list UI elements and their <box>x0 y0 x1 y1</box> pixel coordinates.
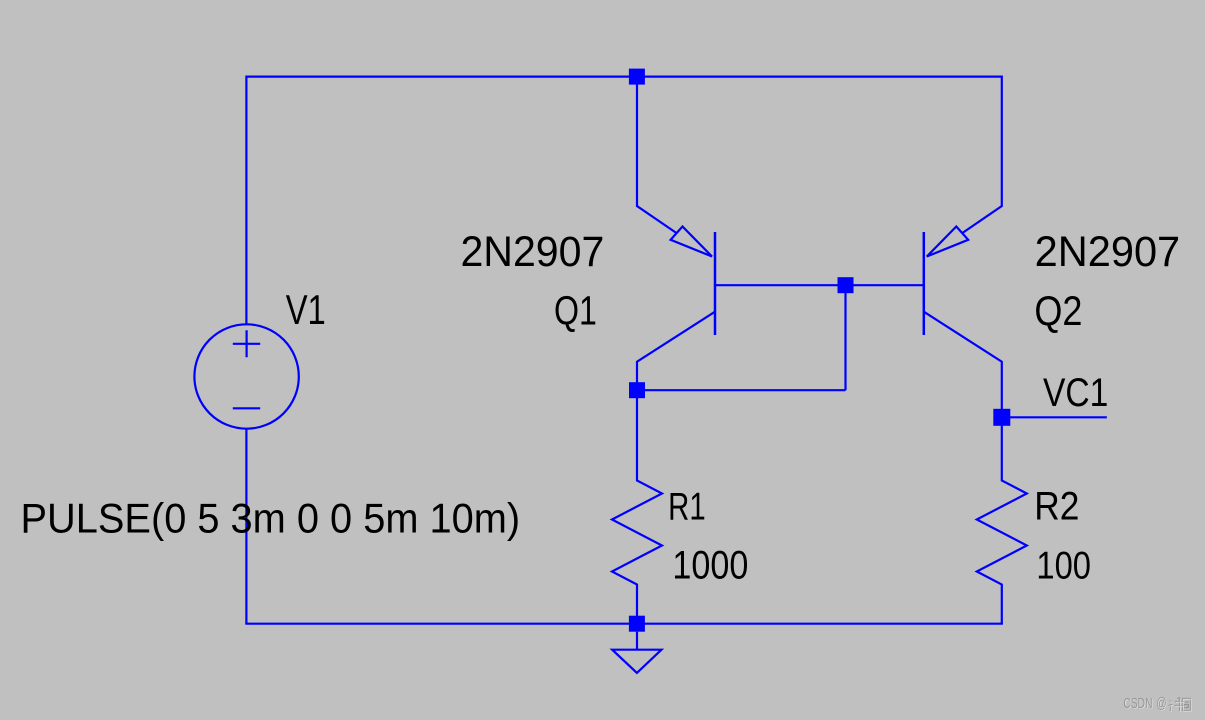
svg-text:@: @ <box>1156 695 1166 711</box>
node junction Q1/Q2 base <box>838 277 854 293</box>
svg-text:2N2907: 2N2907 <box>1035 227 1181 275</box>
transistor Q1 emitter arrow <box>671 227 712 257</box>
voltage source V1 circle <box>194 324 298 428</box>
svg-text:VC1: VC1 <box>1043 369 1108 415</box>
transistor Q1 base wire <box>715 284 846 286</box>
wire left vertical (V1 top lead) <box>245 76 247 325</box>
watermark CSDN <box>1123 695 1191 712</box>
svg-text:2N2907: 2N2907 <box>460 227 604 275</box>
ground symbol <box>612 650 661 673</box>
resistor R2 <box>977 417 1027 623</box>
svg-text:PULSE(0 5 3m 0 0 5m 10m): PULSE(0 5 3m 0 0 5m 10m) <box>21 494 521 541</box>
transistor Q2 base wire <box>846 284 924 286</box>
svg-text:CSDN: CSDN <box>1123 695 1152 711</box>
transistor Q1 base bar <box>714 232 717 335</box>
node junction R1 top <box>629 382 645 398</box>
wire ground lead <box>636 632 638 650</box>
resistor R1 <box>612 390 662 624</box>
svg-text:R1: R1 <box>668 486 706 529</box>
svg-text:Q2: Q2 <box>1034 289 1082 335</box>
transistor Q2 emitter arrow <box>927 227 968 257</box>
node junction top rail <box>629 69 645 85</box>
wire top rail <box>246 75 1001 77</box>
transistor Q2 base bar <box>923 232 926 335</box>
transistor Q2 collector wire <box>924 312 1002 418</box>
svg-text:1000: 1000 <box>672 542 748 587</box>
V1 plus sign <box>233 330 260 357</box>
svg-text:100: 100 <box>1036 543 1091 587</box>
wire VC1 <box>1002 416 1107 418</box>
V1 minus sign <box>233 407 260 409</box>
transistor Q1 collector wire <box>637 312 715 391</box>
wire V1 bottom lead <box>245 429 247 624</box>
node junction VC1 <box>993 409 1010 426</box>
svg-text:V1: V1 <box>286 287 326 334</box>
node junction ground <box>629 616 645 632</box>
transistor Q2 emitter wire <box>962 76 1002 234</box>
wire bottom rail <box>245 623 1003 625</box>
transistor Q1 emitter wire <box>637 76 677 234</box>
svg-text:R2: R2 <box>1034 484 1079 528</box>
wire base node vertical <box>844 285 846 390</box>
wire collector to base node <box>637 389 846 391</box>
svg-text:Q1: Q1 <box>554 288 597 333</box>
